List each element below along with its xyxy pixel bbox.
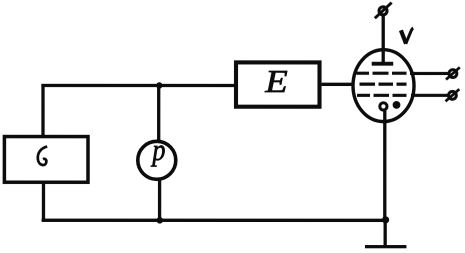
grid 2 (middle, dashed) (360, 83, 409, 86)
label V (401, 28, 413, 44)
wire: grid 3 lead right (411, 94, 448, 97)
wire: top bus from left corner to E (41, 84, 237, 87)
wire: E output to tube grid (322, 83, 355, 86)
node: cathode junction on bottom bus (382, 216, 389, 223)
terminal: anode top cap (375, 3, 392, 19)
terminal: grid 3 (446, 89, 460, 101)
cathode (380, 103, 387, 110)
node: junction of P top lead with top bus (156, 82, 162, 88)
device E (236, 62, 320, 106)
gas-filled indicator dot (393, 101, 401, 109)
wire: G bottom lead (42, 182, 45, 221)
grid 1 (top, dashed) (357, 72, 407, 75)
node: junction of P bottom lead with bottom bus (156, 217, 163, 224)
wire: P top lead (157, 85, 160, 141)
meter P (138, 134, 176, 179)
wire: grid 1 lead right (410, 72, 448, 75)
svg-text:p: p (151, 134, 166, 167)
wire: cathode lead down to bottom bus (383, 109, 386, 220)
grid 3 (bottom, dashed) (357, 94, 406, 97)
wire: down to ground (384, 220, 387, 246)
generator G (4, 137, 88, 183)
wire: anode lead up to top cap (382, 15, 385, 64)
wire: left vertical from top bus to G (41, 84, 44, 137)
anode (plate) (372, 62, 394, 66)
wire: P bottom lead (158, 179, 161, 220)
wire: bottom bus (42, 219, 386, 222)
tube V envelope (353, 50, 414, 122)
ground (365, 245, 407, 248)
svg-text:E: E (264, 64, 288, 99)
terminal: grid 1 (446, 67, 460, 79)
